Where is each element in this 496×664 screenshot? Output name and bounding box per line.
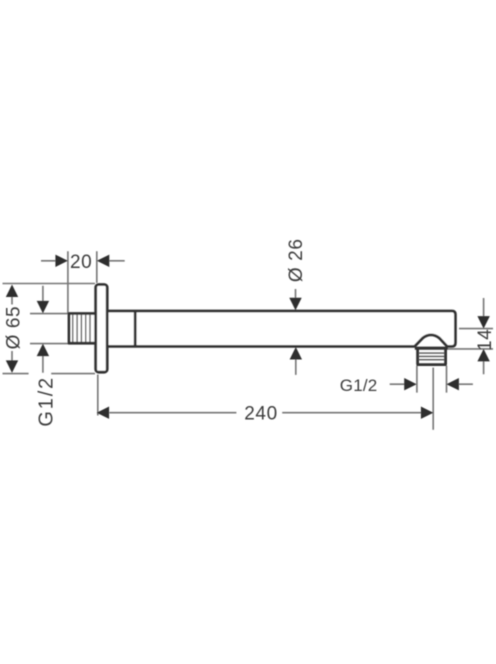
svg-text:G1/2: G1/2 <box>36 376 58 427</box>
svg-text:G1/2: G1/2 <box>340 376 378 395</box>
svg-text:20: 20 <box>70 252 92 273</box>
svg-text:Ø 65: Ø 65 <box>4 306 25 350</box>
svg-text:Ø 26: Ø 26 <box>286 239 307 283</box>
svg-text:14: 14 <box>475 329 496 351</box>
svg-text:240: 240 <box>244 404 278 425</box>
